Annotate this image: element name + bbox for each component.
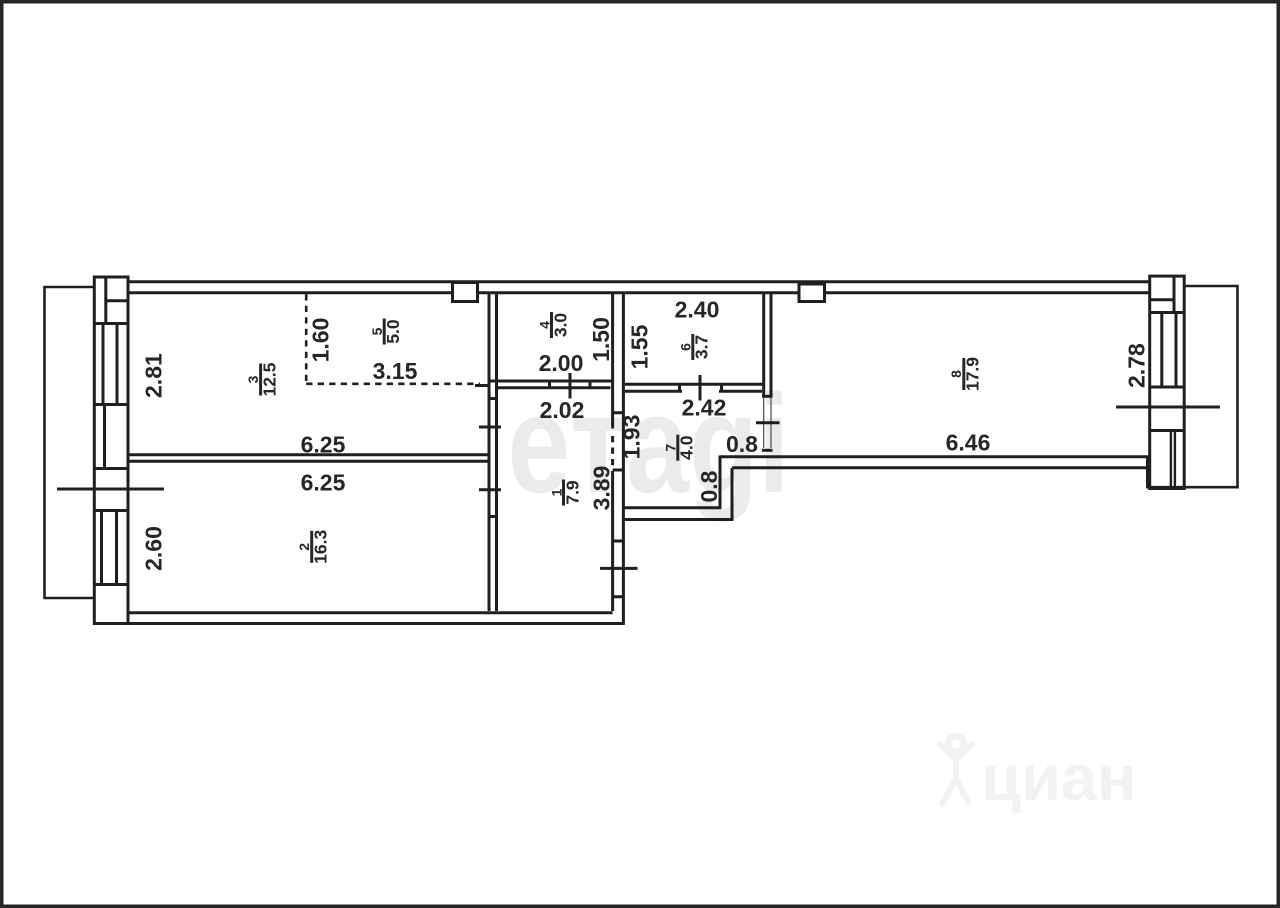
right column window1 bottom cap — [1150, 386, 1185, 389]
svg-text:1.55: 1.55 — [627, 324, 653, 369]
wall 6/8 cap — [762, 395, 773, 398]
svg-text:2.02: 2.02 — [540, 397, 585, 423]
wall rooms 6/8 double line — [764, 294, 771, 396]
room5 dashed boundary vertical — [305, 294, 308, 384]
svg-text:5.0: 5.0 — [383, 319, 403, 344]
room 7 label 7/4.0 — [663, 435, 697, 461]
room 2/3 divider wall — [130, 455, 490, 461]
room6 door crossbars — [680, 384, 722, 391]
svg-text:8: 8 — [948, 370, 964, 378]
right window column outer rect — [1150, 276, 1185, 488]
top wall outer line — [127, 280, 1151, 283]
right column top block sub h — [1150, 298, 1174, 301]
top wall inner line segments — [127, 291, 1150, 294]
room6 bottom wall upper line — [625, 383, 765, 386]
room7/8 door thin lines — [764, 398, 771, 448]
right column window1 glazing — [1162, 313, 1176, 388]
room number/area fractions (rotated) — [245, 312, 983, 564]
right column top block divider — [1173, 276, 1176, 312]
right column lower connector — [1146, 457, 1149, 489]
room7/8 door tick — [756, 421, 780, 424]
cian logo (faint, rotated 180) — [940, 736, 1136, 814]
left wall dimension tick 2.81/2.60 — [57, 488, 164, 491]
left column window2 glazing — [102, 511, 117, 585]
step wall verticals — [720, 456, 732, 522]
room 2 label 2/16.3 — [296, 530, 331, 564]
top wall block B — [799, 284, 825, 302]
left column window1 top cap — [94, 322, 128, 325]
room7 bottom wall upper line — [622, 506, 722, 509]
svg-text:3: 3 — [245, 375, 261, 383]
room4 door crossbars — [550, 381, 591, 388]
right column window1 top cap — [1150, 311, 1185, 314]
svg-text:2.40: 2.40 — [675, 297, 720, 323]
dimension labels vertical (rotated -90) — [141, 317, 1150, 571]
room 4 label 4/3.0 — [536, 312, 570, 338]
svg-text:17.9: 17.9 — [963, 357, 983, 391]
room8 bottom wall outer line — [732, 466, 1148, 469]
svg-text:6.25: 6.25 — [301, 432, 346, 458]
west mid wall crossbar upper — [489, 397, 497, 400]
right column tick — [1116, 406, 1220, 409]
room 5 label 5/5.0 — [369, 319, 403, 345]
room4 bottom wall upper line — [489, 380, 613, 383]
svg-text:3.7: 3.7 — [692, 335, 712, 359]
svg-text:2.42: 2.42 — [682, 395, 727, 421]
right balcony outline — [1147, 286, 1238, 487]
left window column: outer rect — [94, 277, 128, 624]
east mid wall crossbars — [613, 413, 624, 597]
svg-text:3.89: 3.89 — [589, 466, 615, 511]
room 6 label 6/3.7 — [678, 334, 712, 360]
svg-text:2: 2 — [296, 543, 312, 551]
west mid wall tick 2 — [479, 488, 501, 491]
top wall block A — [453, 283, 478, 302]
svg-text:6.46: 6.46 — [946, 430, 991, 456]
svg-text:0.8: 0.8 — [696, 470, 722, 502]
svg-text:6.25: 6.25 — [301, 470, 346, 496]
svg-text:16.3: 16.3 — [311, 530, 331, 564]
room5 dashed last dash to wall — [475, 384, 489, 387]
west mid wall (rooms 3/2 vs 4/1) double line — [489, 294, 497, 611]
left balcony outline — [45, 287, 94, 598]
svg-text:7.9: 7.9 — [562, 480, 582, 505]
svg-text:2.81: 2.81 — [141, 353, 167, 398]
svg-text:1.93: 1.93 — [619, 415, 645, 460]
bottom wall inner line — [130, 611, 613, 614]
room 3 label 3/12.5 — [245, 362, 280, 396]
left column window1 bottom cap — [94, 403, 128, 406]
room6 door tick — [699, 375, 702, 401]
left column mid block bottom — [94, 467, 128, 470]
room6 bottom wall lower line with door gap — [625, 390, 762, 393]
svg-text:4.0: 4.0 — [677, 435, 697, 460]
room7 bottom wall lower line — [622, 518, 734, 521]
left column top block divider v — [104, 277, 107, 324]
left column mid block divider — [103, 405, 106, 469]
svg-text:1.60: 1.60 — [308, 318, 334, 363]
room4 bottom wall lower line — [498, 386, 611, 389]
room4 door tick — [569, 373, 572, 399]
dimension labels horizontal — [301, 297, 991, 496]
svg-text:2.78: 2.78 — [1124, 343, 1150, 388]
east mid wall (room4/1 vs 6/7) — [611, 294, 614, 611]
west mid wall crossbar — [489, 515, 497, 518]
room5 dashed boundary horizontal — [306, 382, 480, 385]
left column window2 top cap — [94, 509, 128, 512]
west mid wall tick 1 — [479, 426, 501, 429]
room 1 label 1/7.9 — [548, 480, 582, 506]
svg-text:1.50: 1.50 — [588, 317, 614, 362]
right column window2 glazing pair — [1171, 431, 1175, 489]
left column window2 bottom cap — [94, 583, 128, 586]
left column window1 glazing — [103, 324, 117, 405]
room8 bottom wall inner line — [720, 455, 1150, 458]
svg-text:3.15: 3.15 — [373, 358, 418, 384]
right column window2 top cap — [1150, 429, 1185, 432]
svg-text:2.60: 2.60 — [141, 526, 167, 571]
east mid wall tick — [600, 567, 638, 570]
watermark etagi — [507, 366, 789, 522]
svg-text:12.5: 12.5 — [260, 362, 280, 396]
left column top block sub h — [106, 299, 128, 302]
svg-text:3.0: 3.0 — [550, 313, 570, 338]
room 8 label 8/17.9 — [948, 357, 983, 391]
svg-text:0.8: 0.8 — [726, 431, 758, 457]
svg-text:циан: циан — [981, 741, 1136, 814]
bottom wall outer line — [94, 622, 625, 625]
room7/8 door crossbar — [762, 449, 773, 452]
svg-text:2.00: 2.00 — [539, 350, 584, 376]
